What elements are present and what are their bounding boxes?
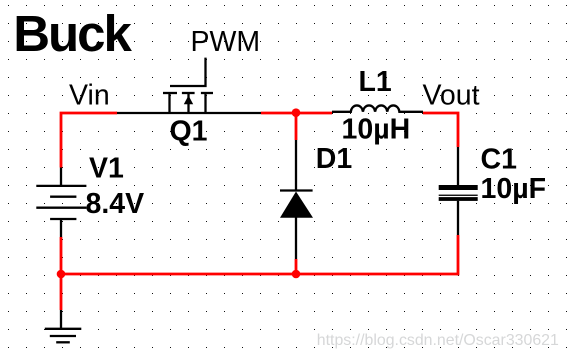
svg-text:D1: D1: [316, 143, 353, 175]
svg-text:Buck: Buck: [13, 5, 132, 62]
svg-text:C1: C1: [481, 144, 518, 176]
svg-text:8.4V: 8.4V: [86, 188, 145, 220]
svg-text:10µH: 10µH: [342, 114, 411, 146]
svg-text:10µF: 10µF: [481, 173, 547, 205]
svg-text:Vout: Vout: [423, 80, 480, 112]
svg-text:L1: L1: [359, 66, 392, 98]
svg-text:Vin: Vin: [69, 80, 110, 112]
svg-text:https://blog.csdn.net/Oscar330: https://blog.csdn.net/Oscar330621: [317, 332, 559, 349]
svg-text:V1: V1: [89, 153, 124, 185]
svg-text:Q1: Q1: [170, 116, 208, 148]
svg-text:PWM: PWM: [191, 26, 261, 58]
